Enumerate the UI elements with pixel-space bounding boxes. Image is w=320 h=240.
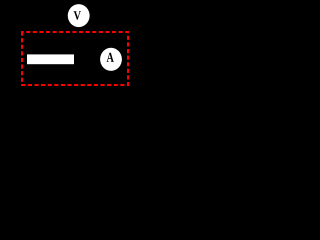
dashed circuit boundary (red dashed box)	[22, 32, 128, 85]
resistor R (white bar)	[27, 54, 74, 64]
ammeter A	[100, 48, 122, 71]
voltmeter V	[68, 4, 90, 27]
background	[0, 0, 156, 118]
